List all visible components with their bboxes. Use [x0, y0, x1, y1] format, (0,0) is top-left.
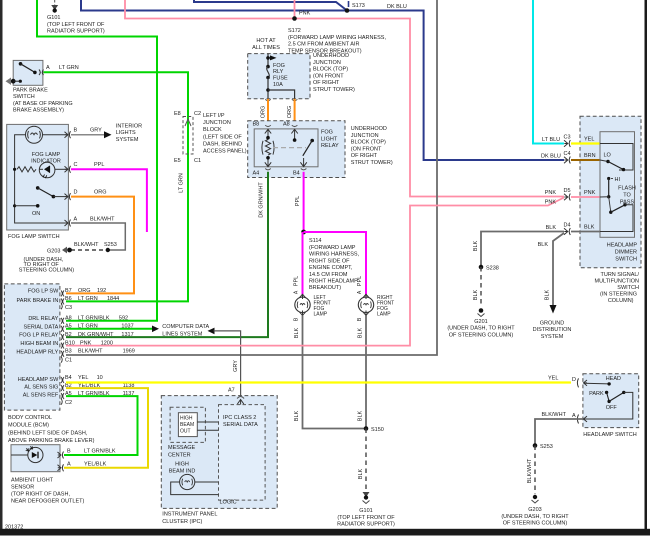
svg-text:C2: C2	[65, 400, 72, 406]
svg-text:SYSTEM: SYSTEM	[116, 137, 139, 143]
park brake switch text	[13, 88, 73, 114]
high beam ind wires	[195, 481, 219, 483]
svg-text:YEL: YEL	[78, 375, 88, 381]
wire PNK inside dimmer box	[571, 196, 600, 198]
splice S253	[104, 242, 117, 252]
high beam out box	[178, 413, 197, 437]
left front fog lamp	[295, 294, 331, 317]
wire PNK stub from top	[294, 0, 296, 19]
wire BLK D4 branch to ground distribution	[553, 233, 564, 305]
svg-text:MULTIFUNCTION: MULTIFUNCTION	[594, 279, 639, 285]
svg-text:NEAR DEFOGGER OUTLET): NEAR DEFOGGER OUTLET)	[11, 499, 85, 505]
svg-text:HIGH: HIGH	[175, 462, 189, 468]
svg-text:BRAKE ASSEMBLY): BRAKE ASSEMBLY)	[13, 108, 64, 114]
svg-text:HIGH: HIGH	[180, 416, 193, 422]
relay coil	[262, 136, 274, 160]
svg-text:(FORWARD LAMP WIRING HARNESS,: (FORWARD LAMP WIRING HARNESS,	[288, 35, 386, 41]
svg-text:AMBIENT LIGHT: AMBIENT LIGHT	[11, 478, 54, 484]
svg-text:DK GRN/WHT: DK GRN/WHT	[78, 332, 114, 338]
svg-text:S114: S114	[309, 238, 321, 244]
connector D4	[564, 223, 571, 236]
wire BLK/WHT dashed S253 to G203	[534, 446, 536, 495]
svg-text:PNK: PNK	[299, 11, 311, 17]
svg-text:ABOVE PARKING BRAKE LEVER): ABOVE PARKING BRAKE LEVER)	[8, 438, 95, 444]
wire DK BLU main: from top left to C4 of dimmer switch	[81, 0, 564, 160]
svg-text:LIGHTS: LIGHTS	[116, 130, 136, 136]
svg-text:1969: 1969	[123, 349, 135, 355]
svg-text:LT GRN/BLK: LT GRN/BLK	[78, 316, 110, 322]
svg-text:(UNDER DASH, TO RIGHT: (UNDER DASH, TO RIGHT	[501, 514, 569, 520]
svg-text:D4: D4	[564, 223, 571, 229]
BCM text	[8, 415, 95, 444]
svg-text:SWITCH: SWITCH	[615, 257, 637, 263]
underhood junction block text (fuse)	[313, 53, 355, 93]
svg-text:B8: B8	[253, 122, 260, 128]
svg-text:PNK: PNK	[545, 200, 557, 206]
svg-text:A8: A8	[65, 316, 72, 322]
svg-text:B6: B6	[65, 296, 72, 302]
wire ORG fuse to relay A8	[294, 99, 296, 126]
fuse output wires	[266, 78, 294, 99]
svg-text:201372: 201372	[5, 524, 23, 530]
svg-text:TURN SIGNAL/: TURN SIGNAL/	[600, 272, 639, 278]
svg-text:TO: TO	[623, 193, 631, 199]
svg-text:B: B	[67, 449, 71, 455]
left I/P junction block (E8/C2 - E5/C1)	[174, 111, 201, 164]
svg-text:E8: E8	[174, 111, 181, 117]
svg-text:SENSOR: SENSOR	[11, 485, 34, 491]
svg-text:OFF: OFF	[606, 405, 618, 411]
svg-text:IPC CLASS 2: IPC CLASS 2	[223, 415, 256, 421]
dimmer HI contact	[600, 177, 620, 199]
wire PNK BCM B10 to D5	[66, 198, 564, 346]
ambient light sensor box	[11, 445, 60, 472]
svg-text:CENTER: CENTER	[168, 452, 191, 458]
wire LT GRN park brake to BCM B6 via junction block	[44, 72, 189, 301]
fog lamp switch box	[7, 124, 69, 230]
page bottom bar	[0, 529, 650, 536]
svg-text:LT GRN: LT GRN	[179, 173, 185, 193]
svg-text:BLOCK (TOP): BLOCK (TOP)	[351, 140, 386, 146]
svg-text:BLOCK (TOP): BLOCK (TOP)	[313, 67, 348, 73]
splice S253 (right)	[533, 443, 553, 450]
svg-text:D: D	[572, 377, 576, 383]
headlamp switch internals	[584, 376, 633, 419]
svg-text:BLK: BLK	[584, 225, 595, 231]
svg-text:LAMP: LAMP	[377, 312, 391, 318]
svg-text:(UNDER DASH, TO RIGHT: (UNDER DASH, TO RIGHT	[447, 326, 515, 332]
svg-text:OUT: OUT	[180, 429, 191, 435]
connector D5	[564, 188, 571, 201]
svg-text:PNK: PNK	[545, 190, 557, 196]
svg-text:(ON FRONT: (ON FRONT	[313, 73, 344, 79]
svg-text:A: A	[67, 462, 71, 468]
svg-text:ORG: ORG	[94, 190, 107, 196]
S114 text	[309, 238, 360, 291]
wire BLK inside dimmer box	[571, 231, 600, 233]
svg-text:SERIAL DATA: SERIAL DATA	[223, 422, 258, 428]
fog lamp switch ON contact	[13, 186, 67, 217]
svg-text:192: 192	[97, 288, 106, 294]
high beam out link wires	[197, 421, 218, 423]
svg-text:(TOP LEFT FRONT OF: (TOP LEFT FRONT OF	[47, 22, 105, 28]
svg-text:DASH, BEHIND: DASH, BEHIND	[203, 141, 242, 147]
wire BLK/WHT from top to BCM B3 (HEADLAMP RLY)	[66, 0, 437, 355]
svg-text:JUNCTION: JUNCTION	[313, 60, 341, 66]
svg-text:1844: 1844	[107, 296, 119, 302]
wire BLK dashed S150 to G101	[365, 429, 367, 493]
svg-text:RLY: RLY	[273, 69, 284, 75]
ambient light sensor pin brackets	[58, 452, 64, 472]
svg-text:HEADLAMP SWITCH: HEADLAMP SWITCH	[583, 432, 636, 438]
svg-text:D: D	[74, 190, 78, 196]
svg-text:A: A	[46, 65, 50, 71]
svg-text:SERIAL DATA: SERIAL DATA	[24, 325, 59, 331]
svg-text:HEADLAMP: HEADLAMP	[607, 243, 638, 249]
svg-text:YEL: YEL	[584, 137, 594, 143]
svg-text:BLK/WHT: BLK/WHT	[78, 349, 103, 355]
svg-text:BLK: BLK	[473, 289, 479, 300]
ground G203 (right)	[501, 495, 569, 527]
svg-text:G201: G201	[474, 319, 487, 325]
svg-text:B: B	[74, 128, 78, 134]
svg-text:ORG: ORG	[261, 106, 267, 119]
svg-text:LO: LO	[604, 153, 612, 159]
ambient light sensor text	[11, 478, 85, 505]
wire GRY stub to interior lights	[71, 124, 142, 143]
svg-text:MESSAGE: MESSAGE	[168, 445, 196, 451]
svg-text:UNDERHOOD: UNDERHOOD	[351, 126, 387, 132]
fog lamp indicator resistor	[13, 167, 36, 172]
svg-text:D5: D5	[564, 188, 571, 194]
IPC logic dashed box	[219, 405, 266, 501]
message center dashed box	[170, 407, 205, 442]
svg-text:BLK: BLK	[294, 327, 300, 338]
headlamp switch pin A	[572, 413, 587, 424]
svg-text:BLK: BLK	[358, 410, 364, 421]
svg-text:PNK: PNK	[584, 190, 596, 196]
svg-text:C1: C1	[65, 358, 72, 364]
wire BLK left fog lamp to S150	[303, 315, 365, 428]
svg-text:(FORWARD LAMP: (FORWARD LAMP	[309, 245, 356, 251]
svg-text:FOG: FOG	[321, 130, 333, 136]
park brake switch ground	[6, 78, 22, 85]
wire YEL/BLK BCM B2 to ambient light sensor A	[64, 388, 148, 468]
svg-text:S253: S253	[540, 444, 553, 450]
svg-text:A8: A8	[283, 122, 290, 128]
underhood junction block text (relay)	[351, 126, 393, 166]
svg-text:OF RIGHT: OF RIGHT	[313, 80, 340, 86]
ambient light sensor internal wiring	[11, 454, 28, 456]
svg-text:(TOP LEFT FRONT OF: (TOP LEFT FRONT OF	[337, 515, 395, 521]
svg-text:S173: S173	[352, 3, 365, 9]
fog lamp switch bulb	[26, 126, 67, 143]
svg-text:DK GRN/WHT: DK GRN/WHT	[259, 182, 265, 218]
wire BLK/WHT headlamp switch A to S253	[535, 419, 583, 446]
svg-text:OF RIGHT: OF RIGHT	[351, 153, 378, 159]
svg-text:BLOCK: BLOCK	[203, 127, 222, 133]
BCM left pin names	[16, 288, 59, 398]
fuse box bottom connector cups	[265, 99, 297, 100]
fog lamp switch pin brackets	[65, 131, 71, 226]
splice S173	[345, 1, 365, 13]
svg-text:2.5 CM FROM AMBIENT AIR: 2.5 CM FROM AMBIENT AIR	[288, 42, 359, 48]
headlamp switch pin D	[572, 377, 587, 387]
svg-text:JUNCTION: JUNCTION	[203, 120, 231, 126]
svg-text:S172: S172	[288, 28, 301, 34]
svg-text:G101: G101	[47, 15, 60, 21]
svg-text:G203: G203	[47, 248, 60, 254]
svg-text:LIGHT: LIGHT	[321, 136, 338, 142]
ground G101 (top left)	[47, 0, 105, 35]
svg-text:BLK: BLK	[538, 242, 549, 248]
svg-text:LT BLU: LT BLU	[542, 137, 560, 143]
relay switch contact	[293, 138, 314, 156]
svg-text:G203: G203	[528, 507, 541, 513]
svg-text:1317: 1317	[121, 332, 133, 338]
svg-text:BODY CONTROL: BODY CONTROL	[8, 415, 52, 421]
svg-text:PPL: PPL	[94, 162, 104, 168]
svg-text:DIMMER: DIMMER	[615, 250, 637, 256]
svg-text:BLK/WHT: BLK/WHT	[74, 242, 99, 248]
splice S238	[479, 265, 499, 272]
svg-text:RIGHT SIDE OF: RIGHT SIDE OF	[309, 258, 350, 264]
page right border bar	[645, 0, 648, 530]
svg-text:PARK: PARK	[589, 391, 604, 397]
wire ORG fuse to relay B8	[267, 99, 269, 126]
svg-text:(IN STEERING: (IN STEERING	[600, 292, 637, 298]
svg-text:(TOP RIGHT OF DASH,: (TOP RIGHT OF DASH,	[11, 492, 70, 498]
svg-text:B2: B2	[65, 332, 72, 338]
wire PPL S114 to right fog lamp	[304, 232, 366, 295]
svg-text:SWITCH: SWITCH	[13, 94, 35, 100]
wire YEL inside dimmer box	[571, 142, 600, 144]
left I/P junction block text	[203, 113, 247, 155]
svg-text:ON: ON	[32, 211, 40, 217]
svg-text:S150: S150	[371, 427, 384, 433]
svg-text:C3: C3	[564, 135, 571, 141]
dimmer LO contact	[600, 144, 633, 172]
svg-text:LT GRN: LT GRN	[59, 65, 79, 71]
wire BRN inside dimmer box	[571, 159, 600, 161]
svg-text:LT GRN/BLK: LT GRN/BLK	[84, 449, 116, 455]
wire DK GRN/WHT relay A4 to BCM B2	[66, 172, 268, 337]
svg-text:C4: C4	[564, 151, 571, 157]
wire LT GRN/BLK BCM A5 to ambient light sensor B	[64, 396, 138, 455]
svg-text:FUSE: FUSE	[273, 76, 288, 82]
svg-text:BLK/WHT: BLK/WHT	[527, 458, 533, 483]
svg-text:HEAD: HEAD	[606, 376, 621, 382]
svg-text:FOG LAMP SWITCH: FOG LAMP SWITCH	[8, 234, 60, 240]
svg-text:LT GRN: LT GRN	[78, 296, 98, 302]
svg-text:AL SENS SIG: AL SENS SIG	[24, 385, 58, 391]
svg-text:C: C	[74, 162, 78, 168]
turn signal switch text	[594, 272, 639, 304]
page left border bar	[0, 0, 3, 530]
svg-text:10: 10	[97, 375, 103, 381]
svg-text:FOG: FOG	[273, 63, 285, 69]
wire DK BLU upper branch	[194, 0, 347, 11]
fog light relay label	[321, 130, 339, 150]
svg-text:592: 592	[119, 316, 128, 322]
svg-text:(LEFT SIDE OF: (LEFT SIDE OF	[203, 134, 242, 140]
wire PPL relay B4 to S114	[303, 172, 305, 232]
svg-text:FLASH: FLASH	[618, 186, 636, 192]
relay inner box	[254, 129, 318, 167]
svg-text:BEAM IND: BEAM IND	[169, 469, 196, 475]
wire PNK from top left to D5 of dimmer switch	[125, 0, 564, 197]
svg-text:DISTRIBUTION: DISTRIBUTION	[533, 327, 572, 333]
splice S150	[364, 426, 384, 433]
svg-text:LEFT I/P: LEFT I/P	[203, 113, 225, 119]
svg-text:B3: B3	[65, 349, 72, 355]
svg-text:AL SENS REF: AL SENS REF	[23, 393, 59, 399]
svg-text:14.5 CM FROM: 14.5 CM FROM	[309, 272, 348, 278]
svg-text:B4: B4	[293, 171, 300, 177]
svg-text:DK BLU: DK BLU	[541, 154, 561, 160]
svg-text:(AT BASE OF PARKING: (AT BASE OF PARKING	[13, 101, 73, 107]
svg-text:RADIATOR SUPPORT): RADIATOR SUPPORT)	[47, 29, 105, 35]
svg-text:BLK: BLK	[473, 240, 479, 251]
svg-text:PPL: PPL	[295, 196, 301, 206]
ambient light sensor photodiode	[26, 446, 43, 462]
connector C4	[541, 151, 571, 164]
svg-text:(ON FRONT: (ON FRONT	[351, 146, 382, 152]
svg-text:BLK/WHT: BLK/WHT	[90, 217, 115, 223]
svg-text:OF STEERING COLUMN): OF STEERING COLUMN)	[503, 521, 568, 527]
fog lamp indicator LED	[39, 162, 66, 178]
svg-text:COLUMN): COLUMN)	[608, 298, 634, 304]
svg-text:FOG LAMP: FOG LAMP	[32, 152, 61, 158]
svg-text:ORG: ORG	[78, 288, 91, 294]
svg-text:PPL: PPL	[357, 276, 363, 286]
svg-text:BLK: BLK	[545, 289, 551, 300]
wire BLK/WHT fog switch A to S253	[71, 223, 125, 250]
svg-text:HOT AT: HOT AT	[256, 38, 276, 44]
svg-text:BEAM: BEAM	[180, 422, 194, 428]
ground G201	[447, 308, 515, 338]
svg-text:HIGH BEAM IN: HIGH BEAM IN	[20, 341, 58, 347]
turn signal / multifunction switch dashed box	[580, 116, 641, 268]
wire LT GRN serial data with arrow	[66, 326, 159, 333]
svg-text:BLK: BLK	[294, 410, 300, 421]
svg-text:FOG LP RELAY: FOG LP RELAY	[19, 333, 59, 339]
wire YEL BCM B4 to headlamp switch D	[66, 381, 571, 383]
splice S114 junction	[301, 230, 306, 235]
svg-text:A7: A7	[228, 388, 235, 394]
splice S172	[288, 11, 386, 55]
wire PPL fog switch C to S114	[71, 169, 147, 232]
wire BLK D4 to S238	[481, 232, 564, 268]
svg-text:ENGINE COMPT,: ENGINE COMPT,	[309, 265, 353, 271]
svg-text:JUNCTION: JUNCTION	[351, 133, 379, 139]
svg-text:BLK: BLK	[546, 225, 557, 231]
svg-text:C2: C2	[194, 111, 201, 117]
svg-text:INSTRUMENT PANEL: INSTRUMENT PANEL	[162, 512, 217, 518]
svg-text:ORG: ORG	[287, 106, 293, 119]
svg-text:STEERING COLUMN): STEERING COLUMN)	[19, 267, 74, 273]
fuse FOG RLY FUSE 10A	[266, 63, 288, 88]
svg-text:GRY: GRY	[90, 128, 102, 134]
headlamp dimmer switch inner box	[600, 132, 635, 238]
svg-text:INDICATOR: INDICATOR	[31, 159, 61, 165]
relay pin connector cups top	[265, 125, 297, 126]
svg-text:SWITCH: SWITCH	[617, 285, 639, 291]
svg-text:GROUND: GROUND	[540, 321, 564, 327]
ground G203 (fog lamp switch)	[19, 247, 74, 274]
svg-text:S238: S238	[486, 266, 499, 272]
BCM row pin codes and circuit labels	[65, 288, 135, 406]
right front fog lamp	[358, 294, 394, 317]
svg-text:BLK: BLK	[358, 327, 364, 338]
svg-text:YEL: YEL	[548, 376, 558, 382]
svg-text:COMPUTER DATA: COMPUTER DATA	[162, 324, 209, 330]
connector C3	[542, 135, 571, 148]
underhood junction block fuse box	[248, 54, 310, 99]
svg-text:WIRING HARNESS,: WIRING HARNESS,	[309, 252, 360, 258]
svg-text:PARK BRAKE: PARK BRAKE	[13, 88, 48, 94]
headlamp switch dashed box	[583, 374, 639, 428]
BCM dashed box	[4, 284, 60, 410]
svg-text:RELAY: RELAY	[321, 143, 339, 149]
svg-text:LINES SYSTEM: LINES SYSTEM	[162, 331, 202, 337]
svg-text:RIGHT HEADLAMP: RIGHT HEADLAMP	[309, 279, 358, 285]
svg-text:OF STEERING COLUMN): OF STEERING COLUMN)	[449, 332, 514, 338]
svg-text:DRL RELAY: DRL RELAY	[28, 316, 58, 322]
svg-text:BLK: BLK	[358, 468, 364, 479]
svg-text:INTERIOR: INTERIOR	[116, 124, 142, 130]
IPC pin A7	[228, 388, 244, 406]
svg-text:HEADLAMP SW: HEADLAMP SW	[18, 377, 59, 383]
svg-text:BRN: BRN	[584, 153, 596, 159]
svg-text:STRUT TOWER): STRUT TOWER)	[351, 160, 393, 166]
svg-text:HEADLAMP RLY: HEADLAMP RLY	[16, 350, 58, 356]
park brake switch	[13, 60, 43, 85]
svg-text:MODULE (BCM): MODULE (BCM)	[8, 423, 49, 429]
svg-text:A4: A4	[253, 171, 260, 177]
svg-text:ALL TIMES: ALL TIMES	[252, 45, 280, 51]
fog lamp switch internal rail	[15, 135, 67, 223]
BCM pin brackets	[61, 290, 64, 404]
svg-text:YEL/BLK: YEL/BLK	[84, 462, 107, 468]
svg-text:LOGIC: LOGIC	[220, 500, 237, 506]
svg-text:BREAKOUT): BREAKOUT)	[309, 285, 341, 291]
svg-text:STRUT TOWER): STRUT TOWER)	[313, 87, 355, 93]
svg-text:C3: C3	[65, 305, 72, 311]
svg-text:(BEHIND LEFT SIDE OF DASH,: (BEHIND LEFT SIDE OF DASH,	[8, 430, 88, 436]
fog light relay dashed box	[248, 121, 345, 178]
relay armature link (dashed)	[273, 147, 306, 149]
relay pin arrows	[265, 129, 307, 166]
wire BLK dashed S238 to G201	[480, 267, 482, 307]
svg-text:PARK BRAKE IN: PARK BRAKE IN	[17, 298, 59, 304]
svg-text:LAMP: LAMP	[314, 312, 328, 318]
svg-text:HI: HI	[615, 177, 621, 183]
wire LT GRN from top to BCM A8 (DRL RELAY)	[37, 0, 157, 321]
svg-text:B7: B7	[65, 288, 72, 294]
svg-text:B4: B4	[65, 375, 72, 381]
instrument panel cluster dashed box	[161, 396, 277, 509]
svg-text:C1: C1	[194, 158, 201, 164]
wire LT BLU from top to C3 of dimmer switch	[533, 0, 564, 144]
svg-text:CLUSTER (IPC): CLUSTER (IPC)	[162, 519, 202, 525]
IPC serial data link wire with arrow	[208, 328, 241, 404]
high beam ind bulb	[180, 474, 195, 489]
svg-text:G101: G101	[359, 508, 372, 514]
svg-text:BLK/WHT: BLK/WHT	[542, 412, 567, 418]
svg-text:A: A	[74, 217, 78, 223]
svg-text:SYSTEM: SYSTEM	[541, 334, 564, 340]
